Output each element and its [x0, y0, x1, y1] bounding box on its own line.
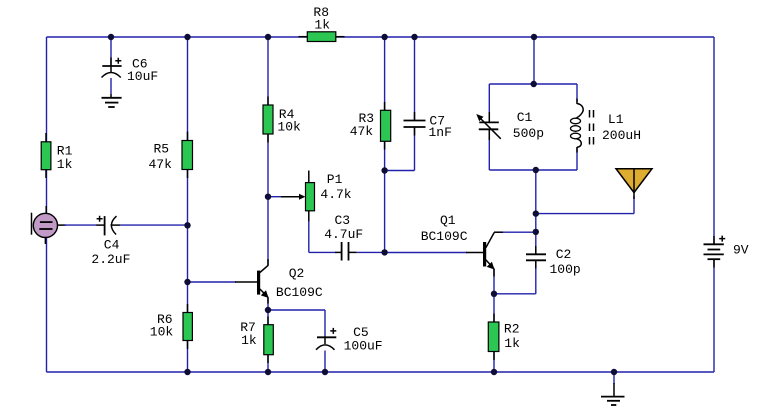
node bottom bus R6: [184, 369, 190, 375]
resistor R4: [263, 105, 301, 135]
transistor Q2: [188, 265, 323, 300]
svg-text:4.7k: 4.7k: [320, 187, 351, 202]
resistor R8: [307, 5, 336, 41]
wire C2 bottom to emitter junction: [494, 293, 536, 295]
node Q1 collector junction: [533, 229, 539, 235]
wire top bus left of R8: [47, 36, 308, 38]
ground below C6: [102, 98, 122, 107]
node bottom bus R7: [265, 369, 271, 375]
wire right border lower: [713, 260, 715, 373]
svg-text:1k: 1k: [57, 157, 73, 172]
wire R3 to C7: [385, 170, 415, 172]
svg-text:P1: P1: [327, 172, 343, 187]
node bottom bus ground: [611, 369, 617, 375]
wire top bus right of R8: [336, 36, 714, 38]
wire tank left lower: [488, 129, 490, 170]
node bottom bus R2: [491, 369, 497, 375]
node antenna junction: [533, 210, 539, 216]
svg-text:Q1: Q1: [440, 213, 456, 228]
wire bottom bus: [47, 371, 715, 373]
wire right border upper: [713, 37, 715, 244]
wire tank feed from top bus: [533, 37, 535, 84]
svg-text:1nF: 1nF: [429, 125, 452, 140]
variable capacitor C1: [476, 110, 544, 141]
node top bus tank feed: [531, 34, 537, 40]
node R3-C7 wire junction: [381, 167, 387, 173]
wire Q1 collector to C2 line: [494, 231, 536, 233]
node C3 Q1 base junction: [381, 249, 387, 255]
wire antenna feed: [536, 213, 634, 215]
capacitor C4: [64, 216, 188, 267]
svg-text:100p: 100p: [550, 262, 581, 277]
wire Q2 emitter down: [267, 297, 269, 325]
ground at bottom bus: [601, 372, 625, 405]
capacitor C5: [268, 310, 383, 372]
wire R5/R6 vertical line: [187, 37, 189, 372]
node top bus R5: [184, 34, 190, 40]
svg-text:500p: 500p: [513, 126, 544, 141]
resistor R7: [240, 320, 273, 372]
wire R3 vertical line: [384, 37, 386, 253]
svg-text:100uF: 100uF: [344, 338, 383, 353]
node Q2 base junction: [184, 279, 190, 285]
node top bus C6: [108, 34, 114, 40]
capacitor C6: [102, 37, 159, 98]
potentiometer P1: [268, 171, 352, 223]
node top bus C7: [411, 34, 417, 40]
node tank top: [531, 81, 537, 87]
node P1 wiper junction: [265, 194, 271, 200]
svg-text:10k: 10k: [150, 325, 174, 340]
svg-text:BC109C: BC109C: [276, 285, 323, 300]
svg-text:R5: R5: [154, 141, 170, 156]
wire tank left upper: [488, 84, 490, 113]
svg-text:1k: 1k: [241, 333, 257, 348]
svg-text:C1: C1: [517, 110, 533, 125]
node Q1 emitter junction: [491, 291, 497, 297]
svg-text:C3: C3: [335, 213, 351, 228]
svg-text:C4: C4: [104, 237, 120, 252]
svg-text:R2: R2: [504, 321, 520, 336]
svg-text:1k: 1k: [504, 336, 520, 351]
resistor R3: [350, 110, 391, 141]
capacitor C2: [526, 247, 581, 294]
resistor R2: [488, 294, 520, 372]
node top bus R4: [265, 34, 271, 40]
svg-text:L1: L1: [608, 112, 624, 127]
transistor Q1: [421, 213, 495, 269]
svg-text:1k: 1k: [314, 17, 330, 32]
svg-text:C2: C2: [556, 247, 572, 262]
svg-text:200uH: 200uH: [602, 128, 641, 143]
node C4 to R5 line: [184, 222, 190, 228]
svg-text:10uF: 10uF: [127, 69, 158, 84]
svg-text:BC109C: BC109C: [421, 229, 468, 244]
wire R4 to top bus: [267, 37, 269, 105]
wire pin stubs (black): [46, 37, 714, 363]
node bottom bus C5: [322, 369, 328, 375]
wire Q1 emitter down: [493, 269, 495, 294]
svg-text:9V: 9V: [733, 242, 749, 257]
svg-text:4.7uF: 4.7uF: [324, 227, 363, 242]
resistor R5: [149, 141, 193, 172]
wire tank top: [489, 83, 577, 85]
wire tank bottom to C2 line: [535, 170, 537, 254]
resistor R1: [41, 142, 72, 172]
wire tank bottom: [489, 169, 577, 171]
svg-text:Q2: Q2: [289, 266, 305, 281]
inductor L1: [571, 84, 642, 170]
antenna ANT: [616, 169, 652, 199]
node tank bottom: [533, 167, 539, 173]
capacitor C3: [309, 213, 385, 260]
resistor R6: [150, 312, 193, 341]
svg-text:10k: 10k: [277, 120, 301, 135]
svg-text:47k: 47k: [350, 124, 374, 139]
wire R4 bottom to Q2 collector: [267, 134, 269, 266]
wire Q1 base from C3 junction: [385, 252, 467, 254]
svg-text:47k: 47k: [149, 157, 173, 172]
battery B1 9V: [704, 236, 749, 260]
capacitor C7: [404, 37, 452, 171]
svg-text:2.2uF: 2.2uF: [91, 252, 130, 267]
node Q2 emitter junction: [265, 307, 271, 313]
node top bus R3: [381, 34, 387, 40]
microphone MIC: [32, 206, 67, 244]
wire left border: [46, 37, 48, 372]
